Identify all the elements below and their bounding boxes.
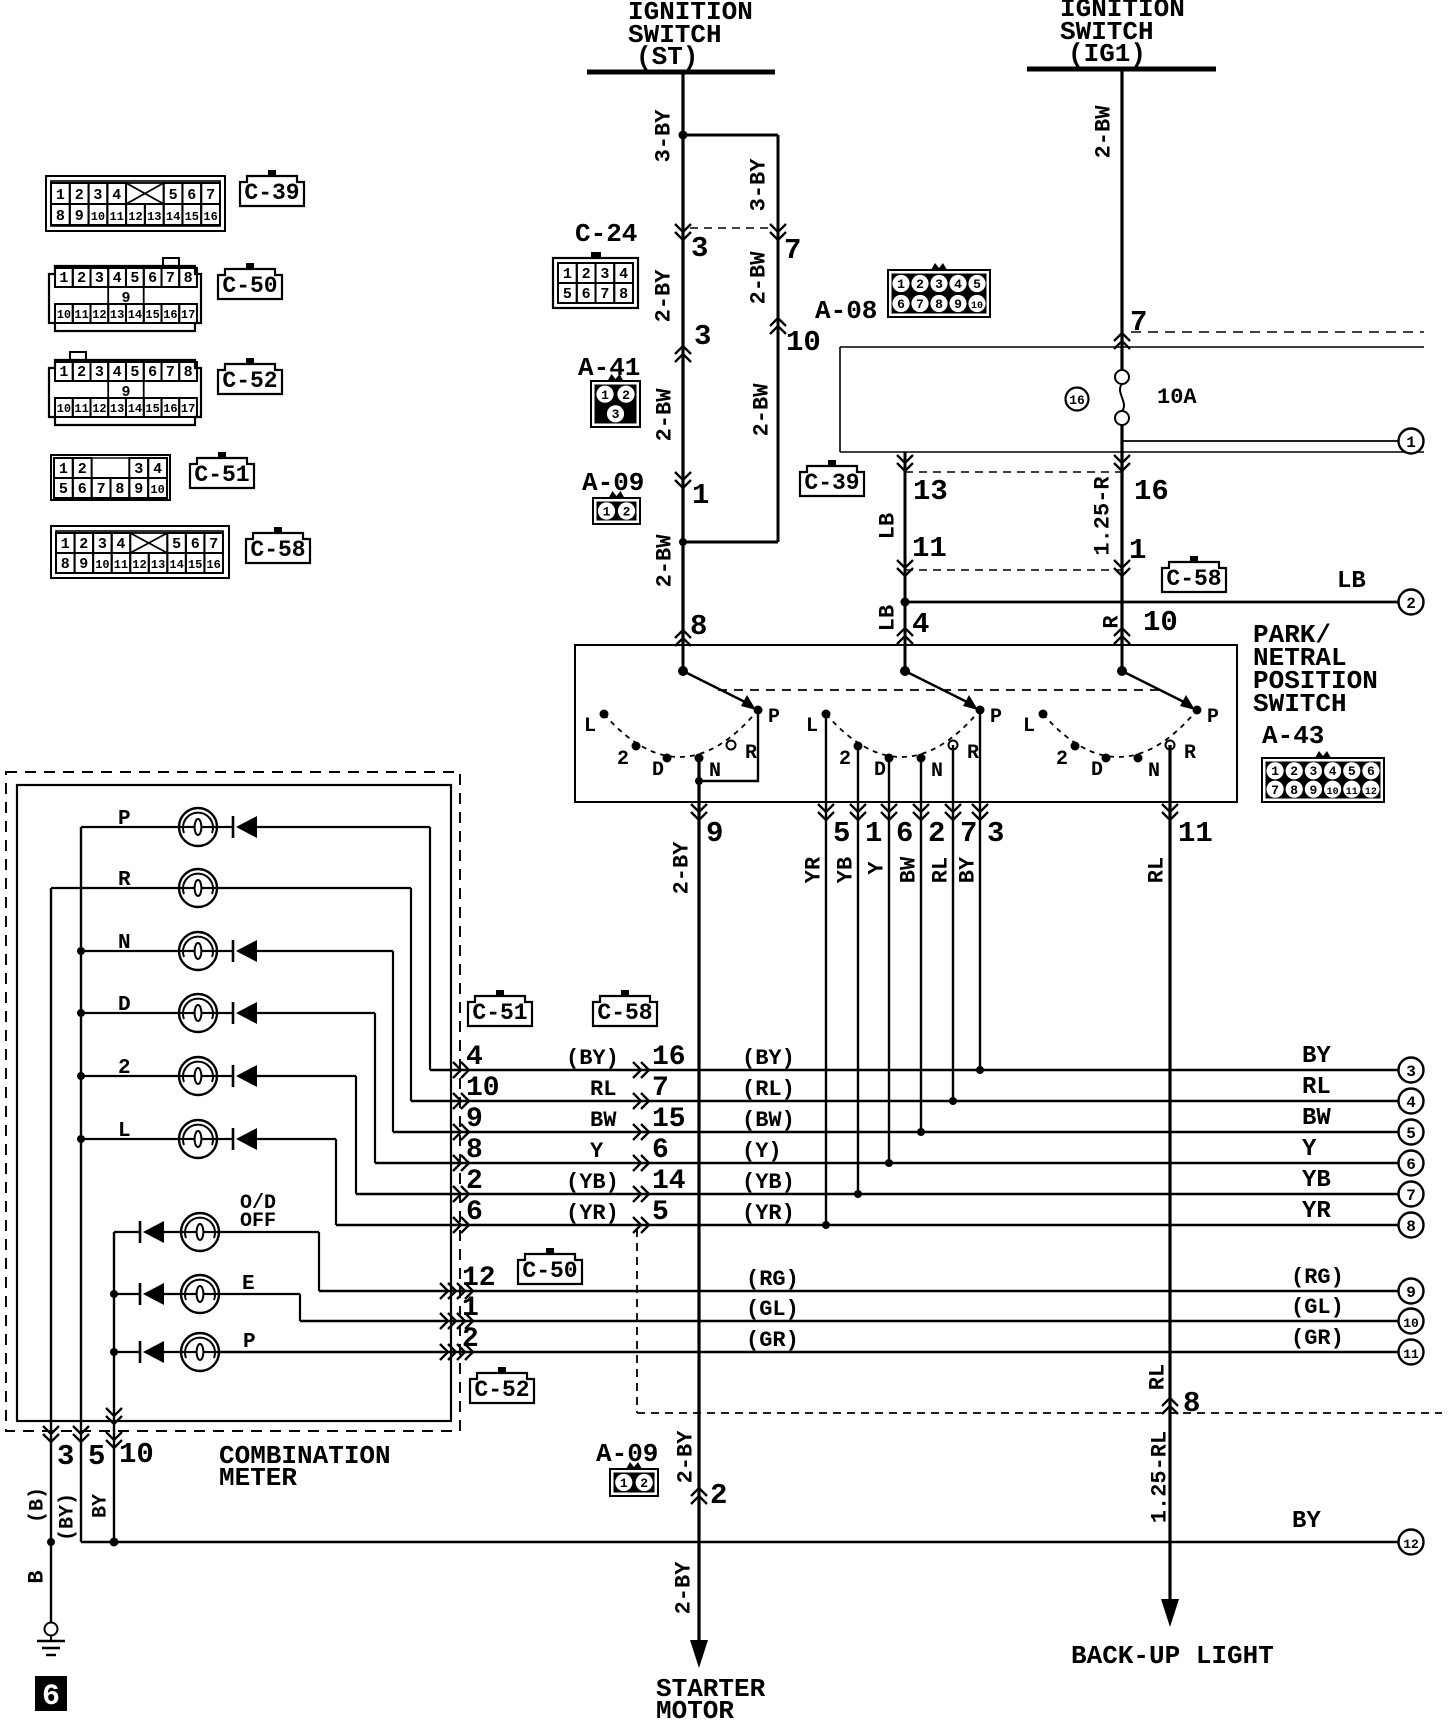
- wire BW from N contact: [920, 758, 922, 1132]
- svg-text:6: 6: [148, 270, 157, 287]
- contact P: [976, 706, 985, 715]
- svg-text:8: 8: [56, 208, 65, 225]
- svg-text:A-08: A-08: [815, 296, 877, 326]
- contact P: [754, 706, 763, 715]
- terminal circle 1: [1399, 429, 1424, 454]
- switch unit IG1-A wiper arm to P: [905, 671, 973, 705]
- contact labels IG1-B: [1023, 706, 1219, 783]
- svg-text:2: 2: [582, 266, 591, 283]
- mechanical link dashed: [718, 689, 1162, 691]
- svg-text:2: 2: [462, 1324, 479, 1355]
- wire L lamp to row YR: [335, 1139, 337, 1225]
- svg-text:11: 11: [1346, 787, 1358, 798]
- svg-text:16: 16: [1069, 393, 1085, 408]
- svg-text:7: 7: [166, 270, 175, 287]
- wire Y from D contact: [888, 758, 890, 1163]
- svg-text:N: N: [1148, 760, 1160, 783]
- switch unit IG1-B wiper arm to P: [1122, 671, 1190, 705]
- svg-text:E: E: [242, 1273, 255, 1296]
- connector C-50 pin diagram: [49, 258, 201, 331]
- contact 2: [632, 742, 641, 751]
- connector C-24 crossing chevrons: [675, 224, 691, 240]
- svg-text:2: 2: [1056, 748, 1068, 771]
- switch unit IG1-B entry wire: [1121, 645, 1124, 671]
- svg-text:YB: YB: [834, 857, 859, 883]
- switch unit ST entry node: [678, 666, 688, 676]
- svg-text:C-39: C-39: [804, 470, 859, 496]
- terminal circle 2: [1399, 590, 1424, 615]
- svg-text:4: 4: [112, 187, 121, 204]
- svg-text:16: 16: [163, 402, 177, 416]
- svg-text:10: 10: [1403, 1316, 1419, 1331]
- contact N: [695, 754, 704, 763]
- svg-text:2-BW: 2-BW: [747, 251, 772, 305]
- svg-text:BW: BW: [590, 1108, 617, 1133]
- svg-text:1.25-R: 1.25-R: [1091, 476, 1116, 556]
- svg-text:1: 1: [865, 817, 882, 850]
- svg-text:C-50: C-50: [522, 1258, 577, 1284]
- svg-text:3: 3: [987, 817, 1004, 850]
- svg-text:P: P: [243, 1331, 256, 1354]
- svg-text:A-09: A-09: [596, 1439, 658, 1469]
- svg-text:2: 2: [623, 505, 631, 520]
- dashed boundary C-39: [905, 471, 1122, 473]
- svg-text:1: 1: [61, 536, 70, 553]
- svg-text:17: 17: [181, 308, 195, 322]
- svg-text:10: 10: [786, 326, 821, 359]
- label IGNITION SWITCH (ST): [628, 0, 753, 72]
- svg-text:10: 10: [57, 308, 71, 322]
- svg-text:13: 13: [151, 558, 165, 572]
- svg-text:BACK-UP LIGHT: BACK-UP LIGHT: [1071, 1641, 1274, 1671]
- switch unit IG1-B entry node: [1117, 666, 1127, 676]
- wire RL from R contact: [952, 745, 954, 1101]
- ignition switch IG1 terminal bar: [1027, 67, 1216, 72]
- svg-text:4: 4: [113, 364, 122, 381]
- svg-text:RL: RL: [1302, 1074, 1331, 1101]
- svg-text:D: D: [652, 759, 664, 782]
- label IGNITION SWITCH (IG1): [1060, 0, 1185, 69]
- contact L: [822, 710, 831, 719]
- fuse 16 10A: [1115, 370, 1129, 645]
- svg-text:14: 14: [166, 210, 180, 224]
- svg-text:1: 1: [56, 187, 65, 204]
- switch box entry chevrons LB: [897, 628, 913, 644]
- wire row (GL) to terminal 10: [300, 1293, 1398, 1329]
- svg-text:10: 10: [466, 1073, 500, 1104]
- wire right leg vertical 3-BY/2-BW: [777, 135, 780, 542]
- svg-text:9: 9: [954, 297, 962, 312]
- svg-text:BW: BW: [1302, 1105, 1331, 1132]
- contact D: [663, 754, 672, 763]
- svg-text:Y: Y: [590, 1139, 604, 1164]
- svg-text:LB: LB: [1337, 568, 1366, 595]
- svg-text:L: L: [1023, 715, 1035, 738]
- connector A-43 crossing chevrons under switch box: [691, 804, 707, 820]
- svg-text:10: 10: [150, 483, 164, 497]
- wire right leg return to main: [683, 541, 778, 544]
- svg-text:12: 12: [132, 558, 146, 572]
- svg-text:5: 5: [169, 187, 178, 204]
- svg-text:D: D: [118, 994, 131, 1017]
- svg-text:(BY): (BY): [742, 1046, 795, 1071]
- svg-text:P: P: [1207, 706, 1219, 729]
- svg-text:C-51: C-51: [472, 1000, 527, 1026]
- svg-text:14: 14: [169, 558, 183, 572]
- chevron on back-up wire: [1162, 1398, 1178, 1414]
- svg-text:1: 1: [897, 277, 905, 292]
- terminal circle 9: [1399, 1279, 1424, 1304]
- wire BY from P contact: [979, 710, 981, 1070]
- svg-text:2-BY: 2-BY: [652, 269, 677, 323]
- wire 3-BY from ignition switch ST: [681, 72, 684, 645]
- svg-text:14: 14: [652, 1166, 686, 1197]
- svg-text:9: 9: [134, 481, 143, 498]
- contact D: [1102, 754, 1111, 763]
- svg-text:11: 11: [74, 402, 88, 416]
- svg-text:2-BW: 2-BW: [750, 383, 775, 437]
- svg-text:2: 2: [1406, 595, 1416, 613]
- svg-text:C-52: C-52: [474, 1377, 529, 1403]
- svg-text:13: 13: [110, 402, 124, 416]
- meter lamp bus P/N/D/2/L: [80, 827, 82, 1542]
- dashed connector boundary top right: [1131, 331, 1424, 333]
- svg-text:12: 12: [92, 402, 106, 416]
- svg-text:(ST): (ST): [636, 42, 698, 72]
- indicator lamp D row: [81, 994, 375, 1032]
- dashed boundary below C-58: [636, 1229, 638, 1413]
- svg-text:BY: BY: [1302, 1043, 1331, 1070]
- svg-text:15: 15: [145, 308, 159, 322]
- svg-text:9: 9: [1309, 783, 1317, 798]
- connector label C-52 left: [218, 364, 282, 394]
- connector label C-51 left: [190, 458, 254, 488]
- svg-text:L: L: [118, 1120, 131, 1143]
- svg-text:16: 16: [203, 210, 217, 224]
- svg-text:7: 7: [784, 234, 801, 267]
- svg-text:4: 4: [619, 266, 628, 283]
- chevrons below junction block right: [1114, 455, 1130, 471]
- terminal circle 11: [1399, 1340, 1424, 1365]
- connector A-09 crossing chevrons: [675, 472, 691, 488]
- meter exit chevrons: [43, 1426, 59, 1442]
- svg-text:1: 1: [620, 1476, 628, 1491]
- svg-text:7: 7: [166, 364, 175, 381]
- svg-text:(GL): (GL): [1291, 1295, 1344, 1320]
- switch unit IG1-B contact arc dashed: [1043, 710, 1197, 757]
- svg-text:3-BY: 3-BY: [652, 109, 677, 163]
- svg-text:11: 11: [114, 558, 128, 572]
- svg-text:(GR): (GR): [746, 1328, 799, 1353]
- svg-text:4: 4: [466, 1042, 483, 1073]
- svg-text:10: 10: [119, 1438, 154, 1471]
- svg-text:YB: YB: [1302, 1167, 1331, 1194]
- svg-text:R: R: [967, 742, 979, 765]
- connector label C-52: [470, 1373, 534, 1403]
- back-up light arrow: [1161, 1599, 1179, 1627]
- svg-text:3: 3: [98, 536, 107, 553]
- svg-text:2: 2: [79, 536, 88, 553]
- svg-text:4: 4: [116, 536, 125, 553]
- svg-text:B: B: [25, 1570, 50, 1583]
- svg-text:(GL): (GL): [746, 1297, 799, 1322]
- connector label C-58 right: [1162, 562, 1226, 592]
- svg-text:1: 1: [692, 479, 709, 512]
- wire YB from 2 contact: [857, 746, 859, 1194]
- svg-text:3: 3: [93, 187, 102, 204]
- svg-text:7: 7: [1406, 1187, 1416, 1205]
- svg-text:Y: Y: [865, 861, 890, 875]
- svg-text:1: 1: [1129, 534, 1146, 567]
- wire YR from L contact: [825, 713, 827, 1225]
- switch box entry chevrons R: [1114, 628, 1130, 644]
- svg-text:5: 5: [88, 1440, 105, 1473]
- combination meter outer dashed box: [6, 772, 460, 1431]
- connector A-43 pin diagram: [1315, 751, 1331, 758]
- connector A-08 pin diagram: [931, 263, 947, 270]
- svg-text:11: 11: [1403, 1347, 1419, 1362]
- svg-text:1: 1: [563, 266, 572, 283]
- svg-text:3: 3: [134, 461, 143, 478]
- svg-text:1: 1: [601, 388, 609, 403]
- starter motor arrow: [690, 1640, 708, 1668]
- svg-text:5: 5: [1406, 1125, 1416, 1143]
- svg-text:2: 2: [466, 1166, 483, 1197]
- connector label C-50: [518, 1254, 582, 1284]
- ground symbol: [37, 1623, 65, 1656]
- svg-text:7: 7: [916, 297, 924, 312]
- svg-text:3: 3: [691, 232, 708, 265]
- connector C-39 pin diagram: [46, 176, 225, 231]
- svg-text:1: 1: [59, 270, 68, 287]
- svg-text:15: 15: [145, 402, 159, 416]
- svg-text:2: 2: [78, 461, 87, 478]
- contact 2: [1071, 742, 1080, 751]
- svg-text:6: 6: [466, 1197, 483, 1228]
- svg-text:C-50: C-50: [222, 273, 277, 299]
- contact D: [885, 754, 894, 763]
- svg-text:RL: RL: [590, 1077, 616, 1102]
- connector A-09 bottom pin diagram: [626, 1462, 642, 1469]
- svg-text:2-BW: 2-BW: [653, 388, 678, 442]
- svg-text:C-52: C-52: [222, 368, 277, 394]
- svg-text:R: R: [1100, 615, 1125, 629]
- switch unit IG1-A contact arc dashed: [826, 710, 980, 757]
- svg-text:(YR): (YR): [742, 1201, 795, 1226]
- svg-text:BY: BY: [1292, 1508, 1321, 1535]
- svg-text:6: 6: [1406, 1156, 1416, 1174]
- svg-text:5: 5: [1348, 764, 1356, 779]
- wire branch 3-BY to right leg: [683, 134, 778, 137]
- svg-text:7: 7: [1271, 783, 1279, 798]
- svg-text:2: 2: [640, 1476, 648, 1491]
- svg-text:10A: 10A: [1157, 385, 1197, 410]
- wire row YR to terminal 8: [336, 1197, 1398, 1233]
- svg-text:C-58: C-58: [597, 1000, 652, 1026]
- svg-text:5: 5: [130, 364, 139, 381]
- svg-text:4: 4: [113, 270, 122, 287]
- connector label C-51: [468, 996, 532, 1026]
- svg-text:15: 15: [185, 210, 199, 224]
- switch unit IG1-A entry wire: [904, 645, 907, 671]
- svg-text:P: P: [118, 808, 131, 831]
- svg-text:6: 6: [42, 1680, 60, 1714]
- svg-text:SWITCH: SWITCH: [1253, 689, 1347, 719]
- svg-text:2: 2: [77, 364, 86, 381]
- connector A-41 pin diagram: [608, 374, 624, 381]
- svg-text:2-BW: 2-BW: [653, 534, 678, 588]
- svg-text:N: N: [118, 932, 131, 955]
- switch box entry chevrons ST: [675, 630, 691, 646]
- svg-text:(YR): (YR): [566, 1201, 619, 1226]
- svg-text:(RG): (RG): [746, 1267, 799, 1292]
- wire P lamp to row BY: [429, 827, 431, 1070]
- switch unit IG1-A entry node: [900, 666, 910, 676]
- wire D lamp to row Y: [374, 1013, 376, 1163]
- svg-text:3: 3: [694, 320, 711, 353]
- svg-text:8: 8: [466, 1135, 483, 1166]
- svg-text:YR: YR: [802, 856, 827, 883]
- svg-text:3: 3: [95, 364, 104, 381]
- svg-text:5: 5: [172, 536, 181, 553]
- svg-text:1: 1: [59, 364, 68, 381]
- wire LB to terminal 2: [905, 601, 1398, 604]
- svg-text:6: 6: [652, 1135, 669, 1166]
- svg-text:D: D: [874, 759, 886, 782]
- contact R (open): [727, 741, 736, 750]
- connector C-24 pin diagram: [553, 252, 638, 308]
- svg-text:4: 4: [1329, 764, 1337, 779]
- svg-text:A-43: A-43: [1262, 721, 1324, 751]
- svg-text:4: 4: [954, 277, 962, 292]
- svg-text:7: 7: [206, 187, 215, 204]
- svg-text:5: 5: [59, 481, 68, 498]
- svg-text:11: 11: [912, 532, 947, 565]
- svg-text:7: 7: [97, 481, 106, 498]
- svg-text:8: 8: [184, 364, 193, 381]
- svg-text:6: 6: [1367, 764, 1375, 779]
- indicator lamp P row: [81, 808, 430, 846]
- combination meter inner box: [17, 785, 451, 1421]
- svg-text:7: 7: [960, 817, 977, 850]
- indicator lamp N row: [81, 932, 393, 970]
- svg-text:3: 3: [95, 270, 104, 287]
- svg-text:L: L: [584, 715, 596, 738]
- svg-text:(BW): (BW): [742, 1108, 795, 1133]
- svg-text:C-24: C-24: [575, 219, 637, 249]
- svg-text:1: 1: [1406, 434, 1416, 452]
- svg-text:(B): (B): [27, 1487, 50, 1523]
- svg-text:4: 4: [153, 461, 162, 478]
- wire BY to terminal 12: [81, 1541, 1398, 1544]
- chevrons C-58 boundary left: [897, 560, 913, 576]
- svg-text:(GR): (GR): [1291, 1326, 1344, 1351]
- meter lamp bus O/D,E,P: [113, 1232, 115, 1542]
- svg-text:6: 6: [582, 286, 591, 303]
- svg-text:2: 2: [77, 270, 86, 287]
- svg-text:1: 1: [59, 461, 68, 478]
- svg-text:13: 13: [110, 308, 124, 322]
- contact L: [1039, 710, 1048, 719]
- wire RL back-up feed from R contact: [1168, 745, 1171, 1605]
- svg-text:2: 2: [1290, 764, 1298, 779]
- svg-text:3: 3: [1309, 764, 1317, 779]
- park/neutral position switch box A-43: [575, 645, 1237, 802]
- svg-text:3: 3: [57, 1440, 74, 1473]
- svg-text:5: 5: [973, 277, 981, 292]
- svg-text:3: 3: [600, 266, 609, 283]
- svg-text:11: 11: [1178, 817, 1213, 850]
- connector label C-58 mid: [593, 996, 657, 1026]
- svg-text:16: 16: [163, 308, 177, 322]
- svg-text:(RL): (RL): [742, 1077, 795, 1102]
- connector label C-39 mid: [800, 466, 864, 496]
- connector label C-58 left: [246, 533, 310, 563]
- svg-text:1: 1: [462, 1293, 479, 1324]
- svg-text:8: 8: [935, 297, 943, 312]
- svg-text:OFF: OFF: [240, 1210, 276, 1233]
- svg-text:C-39: C-39: [244, 180, 299, 206]
- svg-text:7: 7: [209, 536, 218, 553]
- svg-text:L: L: [806, 715, 818, 738]
- svg-text:7: 7: [600, 286, 609, 303]
- unit ST P-to-N link wire: [699, 710, 758, 781]
- svg-text:6: 6: [148, 364, 157, 381]
- svg-text:6: 6: [896, 817, 913, 850]
- switch unit ST contact arc dashed: [604, 710, 758, 757]
- svg-text:10: 10: [91, 210, 105, 224]
- svg-text:2: 2: [622, 388, 630, 403]
- svg-text:12: 12: [92, 308, 106, 322]
- connector A-09 pin diagram: [609, 491, 625, 498]
- connector C-51 pin diagram: [51, 455, 170, 500]
- junction dot on ground wire: [47, 1538, 55, 1546]
- svg-text:10: 10: [1143, 606, 1178, 639]
- svg-text:16: 16: [652, 1042, 686, 1073]
- svg-text:2: 2: [710, 1479, 727, 1512]
- wire O/D corner to RG row: [318, 1232, 320, 1291]
- svg-text:2: 2: [839, 748, 851, 771]
- wire row YB to terminal 7: [356, 1166, 1398, 1202]
- svg-text:5: 5: [130, 270, 139, 287]
- svg-text:12: 12: [128, 210, 142, 224]
- svg-text:12: 12: [1365, 787, 1377, 798]
- svg-text:2: 2: [75, 187, 84, 204]
- svg-text:3: 3: [1406, 1063, 1416, 1081]
- svg-text:8: 8: [619, 286, 628, 303]
- svg-text:9: 9: [75, 208, 84, 225]
- svg-text:6: 6: [191, 536, 200, 553]
- contact 2: [854, 742, 863, 751]
- chevrons A-09 crossing: [691, 1488, 707, 1504]
- svg-text:10: 10: [971, 301, 983, 312]
- terminal circle 10: [1399, 1309, 1424, 1334]
- svg-text:8: 8: [1290, 783, 1298, 798]
- svg-text:16: 16: [1134, 475, 1169, 508]
- svg-text:(IG1): (IG1): [1068, 39, 1146, 69]
- contact R (open): [949, 741, 958, 750]
- svg-text:6: 6: [78, 481, 87, 498]
- junction block box left: [839, 347, 841, 452]
- svg-text:2: 2: [916, 277, 924, 292]
- terminal circle 8: [1399, 1213, 1424, 1238]
- wire row (RG) to terminal 9: [319, 1263, 1398, 1299]
- svg-text:(BY): (BY): [566, 1046, 619, 1071]
- svg-text:12: 12: [462, 1263, 496, 1294]
- svg-text:2: 2: [118, 1057, 131, 1080]
- svg-text:11: 11: [109, 210, 123, 224]
- contact N: [1134, 754, 1143, 763]
